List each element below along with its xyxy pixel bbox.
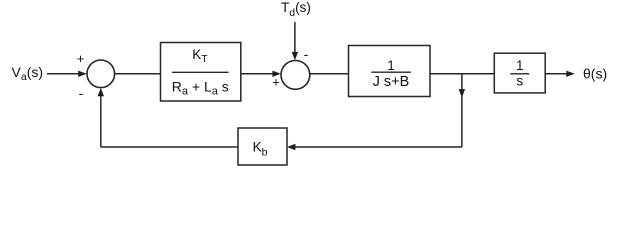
svg-text:Ra + La s: Ra + La s	[172, 78, 229, 97]
svg-text:1: 1	[516, 58, 524, 73]
svg-text:1: 1	[387, 58, 395, 73]
svg-text:-: -	[304, 46, 309, 62]
svg-text:Td(s): Td(s)	[281, 0, 311, 19]
svg-text:θ(s): θ(s)	[583, 66, 607, 82]
svg-text:Va(s): Va(s)	[12, 64, 44, 83]
svg-text:s: s	[516, 74, 523, 89]
svg-text:+: +	[77, 51, 85, 66]
svg-text:-: -	[79, 85, 84, 101]
svg-text:J s+B: J s+B	[373, 74, 410, 90]
svg-text:+: +	[272, 75, 280, 90]
svg-text:KT: KT	[192, 47, 208, 65]
svg-text:Kb: Kb	[253, 140, 268, 159]
